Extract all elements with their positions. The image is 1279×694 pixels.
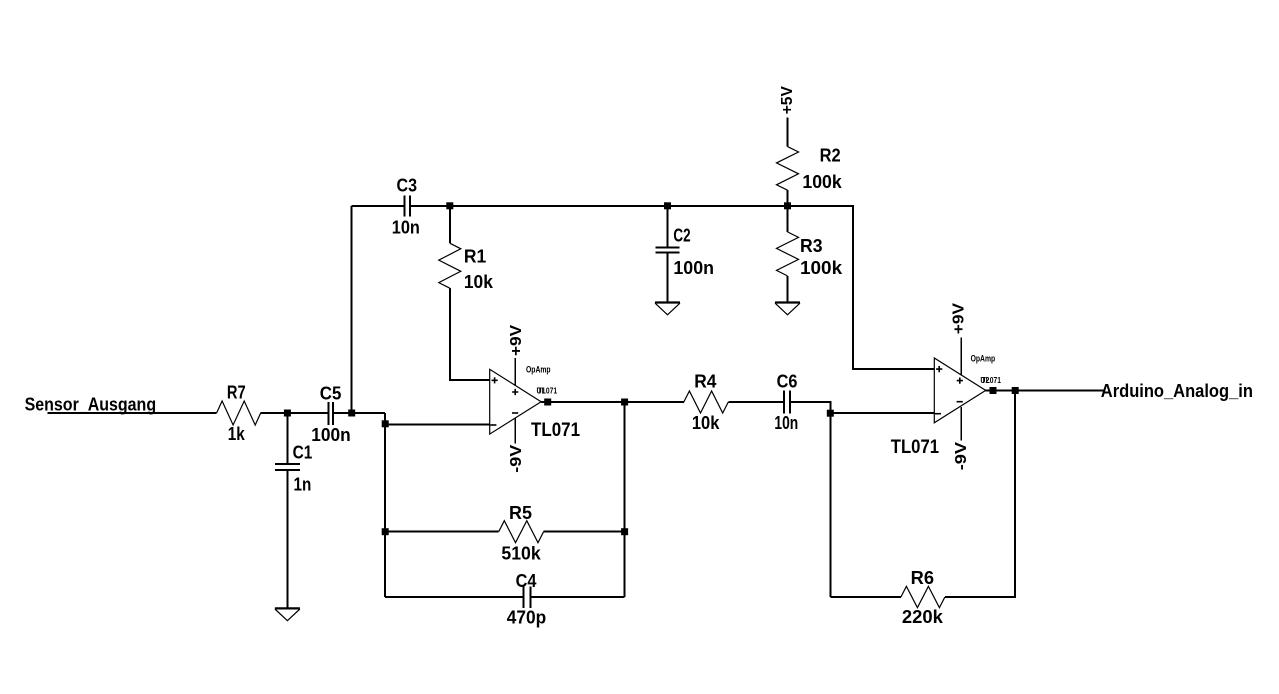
- junction U2 output pin: [990, 387, 997, 394]
- svg-text:R5: R5: [509, 503, 532, 523]
- svg-text:C6: C6: [777, 372, 798, 392]
- wire R5 left lead: [385, 531, 499, 533]
- junction node R5 left: [382, 528, 389, 535]
- svg-text:+9V: +9V: [508, 324, 525, 356]
- svg-text:U1: U1: [537, 387, 546, 396]
- junction node C3/R1: [446, 202, 453, 209]
- svg-text:-9V: -9V: [953, 442, 970, 471]
- op-amp U1 TL071: [490, 364, 580, 441]
- svg-text:R6: R6: [911, 568, 934, 588]
- wire feedback right vertical: [624, 402, 626, 597]
- svg-text:R2: R2: [820, 146, 841, 166]
- junction node U1 - input branch: [382, 420, 389, 427]
- svg-text:TL071: TL071: [891, 436, 939, 458]
- svg-text:R3: R3: [800, 236, 823, 256]
- ground (C2): [655, 301, 680, 303]
- wire U1 output to R4: [541, 401, 684, 403]
- svg-text:C4: C4: [516, 571, 537, 591]
- op-amp U2 TL071: [891, 354, 1002, 458]
- wire top rail left segment: [352, 205, 405, 207]
- wire node up to top rail: [351, 206, 353, 413]
- junction U1 output pin: [544, 399, 551, 406]
- svg-text:10n: 10n: [774, 413, 798, 433]
- wire +9V to U2: [960, 337, 962, 375]
- capacitor C1: [275, 464, 300, 470]
- resistor R5: [499, 521, 544, 543]
- svg-text:10n: 10n: [392, 218, 420, 238]
- capacitor C2: [655, 247, 679, 252]
- resistor R4: [684, 391, 729, 413]
- wire R7 to node: [261, 412, 329, 414]
- wire R3 to ground: [787, 276, 789, 302]
- wire C4 right lead: [530, 596, 624, 598]
- resistor R2: [777, 147, 799, 191]
- svg-text:100k: 100k: [802, 172, 842, 192]
- svg-text:1k: 1k: [228, 424, 246, 444]
- capacitor C6: [784, 391, 790, 414]
- svg-text:510k: 510k: [501, 543, 541, 563]
- wire C4 left lead: [385, 596, 523, 598]
- resistor R7: [217, 401, 261, 425]
- svg-text:R7: R7: [227, 383, 246, 403]
- wire rail to R3: [787, 206, 789, 232]
- wire +9V to U1: [514, 358, 516, 386]
- svg-text:OpAmp: OpAmp: [971, 354, 996, 364]
- capacitor C4: [523, 587, 530, 608]
- wire R2 to rail: [787, 190, 789, 206]
- junction node R2/R3: [784, 202, 791, 209]
- svg-text:+5V: +5V: [779, 86, 796, 115]
- svg-text:C1: C1: [293, 443, 313, 463]
- wire C6 to U2 - input: [790, 402, 830, 597]
- wire rail to C2: [667, 206, 669, 247]
- junction node U2 - input branch: [827, 410, 834, 417]
- svg-text:R4: R4: [694, 372, 716, 392]
- junction node above C2: [664, 202, 671, 209]
- wire U2 output: [986, 390, 1104, 392]
- svg-text:1n: 1n: [294, 475, 312, 495]
- wire U2 to -9V: [960, 407, 962, 441]
- svg-text:10k: 10k: [464, 272, 494, 292]
- svg-text:C2: C2: [673, 226, 690, 246]
- wire C1 to ground: [286, 470, 288, 609]
- svg-text:C5: C5: [320, 384, 342, 404]
- svg-text:Sensor_Ausgang: Sensor_Ausgang: [25, 395, 157, 415]
- svg-text:-9V: -9V: [508, 444, 525, 472]
- junction node output/feedback: [621, 399, 628, 406]
- wire C2 to ground: [667, 253, 669, 303]
- ground (R3): [775, 301, 800, 303]
- junction node after C5: [348, 410, 355, 417]
- svg-text:100k: 100k: [800, 258, 843, 278]
- svg-text:10k: 10k: [692, 413, 720, 433]
- wire U1 to -9V: [514, 418, 516, 444]
- svg-text:470p: 470p: [507, 608, 546, 628]
- wire Sensor_Ausgang to R7: [48, 412, 217, 414]
- wire rail to R1: [449, 206, 451, 243]
- resistor R6: [901, 586, 945, 607]
- wire R4 to C6: [728, 401, 784, 403]
- wire R6 feedback loop: [945, 391, 1015, 598]
- wire top rail right of C3: [410, 206, 935, 369]
- ground (C1): [275, 607, 300, 609]
- wire +5V to R2: [787, 117, 789, 146]
- resistor R1: [439, 243, 461, 288]
- junction node output/R6 feedback: [1012, 387, 1019, 394]
- capacitor C3: [405, 195, 410, 216]
- wire inverting input net (C5 node down and to U1 -): [384, 413, 386, 597]
- svg-text:220k: 220k: [902, 607, 944, 627]
- wire R1 to op-amp U1 + input: [450, 288, 490, 380]
- capacitor C5: [328, 402, 333, 425]
- wire C5 to node: [333, 412, 385, 414]
- wire R6 to U2 - input branch: [830, 596, 901, 598]
- svg-text:100n: 100n: [311, 425, 350, 445]
- junction node R5 right: [621, 528, 628, 535]
- wire R5 right lead: [544, 531, 625, 533]
- svg-text:100n: 100n: [673, 258, 714, 278]
- resistor R3: [777, 232, 799, 276]
- svg-text:U2: U2: [980, 376, 989, 385]
- svg-text:+9V: +9V: [951, 303, 968, 335]
- svg-text:R1: R1: [464, 247, 486, 267]
- svg-text:Arduino_Analog_in: Arduino_Analog_in: [1101, 381, 1253, 401]
- wire node to C1: [286, 413, 288, 464]
- svg-text:OpAmp: OpAmp: [526, 364, 551, 374]
- svg-text:TL071: TL071: [531, 419, 580, 441]
- junction node (R7/C1/C5): [284, 410, 291, 417]
- svg-text:C3: C3: [397, 175, 418, 195]
